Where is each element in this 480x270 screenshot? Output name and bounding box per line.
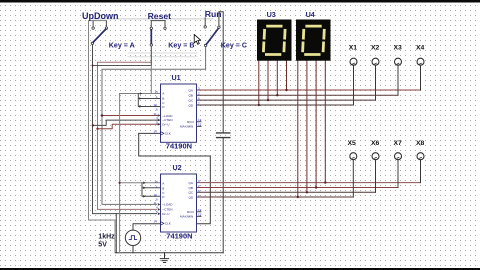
svg-text:D/~U: D/~U [162,212,169,216]
svg-text:12: 12 [198,213,202,217]
svg-text:X8: X8 [416,140,425,147]
svg-text:15: 15 [155,90,159,94]
svg-text:UpDown: UpDown [82,11,119,21]
svg-text:~CTEN: ~CTEN [162,118,172,122]
svg-text:X5: X5 [348,140,357,147]
svg-text:12: 12 [198,123,202,127]
svg-text:74190N: 74190N [166,232,192,241]
svg-text:X4: X4 [416,45,425,52]
svg-text:15: 15 [155,180,159,184]
svg-text:X6: X6 [371,140,380,147]
svg-text:10: 10 [154,193,158,197]
svg-text:10: 10 [154,103,158,107]
svg-text:5V: 5V [98,241,107,248]
svg-text:1kHz: 1kHz [98,233,115,240]
svg-text:U3: U3 [267,10,276,19]
svg-text:QD: QD [189,103,194,107]
svg-text:QC: QC [189,191,194,195]
svg-text:13: 13 [198,208,202,212]
svg-text:X7: X7 [394,140,403,147]
svg-text:U1: U1 [172,74,181,82]
svg-text:14: 14 [154,130,158,134]
svg-text:Run: Run [205,9,222,19]
svg-text:X3: X3 [394,45,403,52]
svg-text:CLK: CLK [165,222,172,226]
svg-text:MAX/MIN: MAX/MIN [180,125,193,129]
svg-text:11: 11 [154,201,157,205]
svg-text:D/~U: D/~U [162,123,169,127]
svg-text:RCO: RCO [187,210,194,214]
svg-text:B: B [162,187,164,191]
svg-text:~CTEN: ~CTEN [162,208,172,212]
svg-text:U4: U4 [306,10,315,19]
svg-text:~LOAD: ~LOAD [162,203,173,207]
svg-text:QD: QD [189,195,194,199]
svg-text:Reset: Reset [148,11,172,21]
svg-text:U2: U2 [173,164,182,172]
svg-text:14: 14 [154,220,158,224]
svg-text:CLK: CLK [165,132,172,136]
svg-text:MAX/MIN: MAX/MIN [180,215,193,219]
svg-text:Key = B: Key = B [168,42,194,50]
svg-text:Key = C: Key = C [221,42,247,50]
svg-text:B: B [162,97,164,101]
svg-text:13: 13 [198,118,202,122]
svg-text:RCO: RCO [187,120,194,124]
svg-text:X2: X2 [371,45,380,52]
svg-text:X1: X1 [349,45,358,52]
svg-text:Key = A: Key = A [109,42,135,50]
svg-text:QB: QB [189,186,193,190]
svg-text:QB: QB [189,94,193,98]
svg-text:QC: QC [189,98,194,102]
svg-text:74190N: 74190N [166,142,192,151]
